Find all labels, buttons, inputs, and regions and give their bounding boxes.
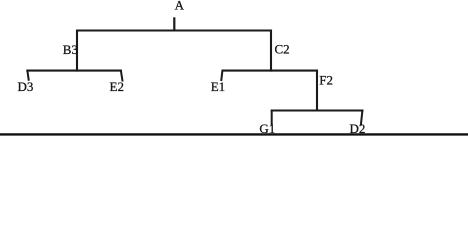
- B3 children connector: [26, 70, 122, 72]
- svg-text:C2: C2: [275, 42, 290, 57]
- tick down to G1: [271, 111, 273, 126]
- svg-text:A: A: [175, 0, 185, 13]
- svg-text:E2: E2: [110, 79, 124, 94]
- vertical branch down to F2: [316, 70, 318, 112]
- tick from A down to root branch: [173, 17, 175, 30]
- svg-text:F2: F2: [319, 73, 333, 88]
- vertical branch down to B3: [76, 30, 78, 72]
- tick down to D3: [27, 71, 28, 81]
- tick down to E1: [221, 71, 222, 81]
- svg-text:E1: E1: [211, 79, 225, 94]
- bottom baseline rule: [0, 133, 468, 135]
- svg-text:B3: B3: [63, 42, 78, 57]
- vertical branch down to C2: [270, 30, 272, 72]
- root horizontal branch: [76, 29, 272, 31]
- tick down to E2: [121, 71, 123, 82]
- C2 children connector: [222, 70, 319, 72]
- tick down to D2: [361, 111, 363, 126]
- F2 children connector: [271, 109, 364, 111]
- svg-text:D3: D3: [18, 79, 34, 94]
